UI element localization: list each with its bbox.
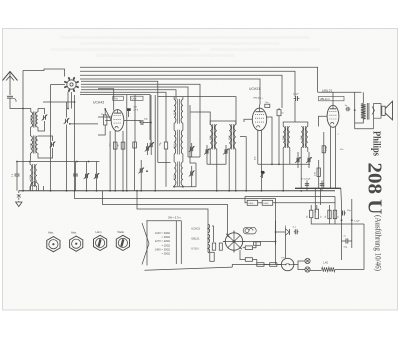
label L4 (174, 109, 176, 115)
wire R16 r (253, 242, 257, 248)
label R6 (315, 171, 317, 176)
node y164 b (278, 163, 280, 165)
wire R8 right (273, 197, 335, 203)
wire bus L7 (81, 87, 188, 157)
bleed-through ghosting (50, 36, 320, 57)
resistor R20 dropper (322, 267, 335, 271)
label C25 (344, 236, 347, 238)
label R11 (325, 215, 327, 218)
wire diode down (285, 235, 287, 258)
wire C5 down (16, 176, 18, 191)
capacitor C18 (294, 96, 300, 101)
wire osc mid link b (182, 123, 184, 130)
label T2a (283, 135, 285, 140)
wire osc y157 link (188, 156, 200, 158)
coil T2a IF2 primary (283, 126, 290, 148)
wire L1 sec bottom (38, 121, 45, 131)
trimmer C11 (138, 168, 144, 174)
label 50uF (134, 107, 138, 109)
label heater UCH21 (191, 227, 200, 231)
label L2 values (31, 142, 33, 148)
wire osc mid link a (173, 123, 175, 130)
wire socket down stub A (67, 92, 69, 109)
wire bus L2 (80, 71, 295, 96)
node x354 (354, 109, 356, 111)
junction dots on chassis bus (22, 190, 302, 192)
wire L3 bot (29, 187, 31, 191)
resistor R21 (164, 142, 167, 149)
wire R2 leads (114, 131, 116, 191)
node 275 sel (275, 241, 277, 243)
resistor R15 (219, 243, 222, 250)
trimmer C2 (42, 115, 48, 121)
label HF pin (254, 97, 264, 99)
wire x294 vertical (294, 101, 296, 123)
coil L3 oscillator (30, 164, 37, 187)
node y124 (69, 123, 71, 125)
wire C17 down (278, 116, 280, 165)
wire C7 leads (86, 162, 88, 191)
label R12b (338, 216, 340, 218)
resistor R16 (245, 246, 252, 250)
wire C5 leads (16, 162, 18, 175)
wire V1 top lead (98, 89, 114, 111)
capacitor C16 box (265, 102, 270, 107)
wire right edge riser (363, 224, 365, 270)
title 208U (364, 163, 386, 215)
label UCH43 (93, 101, 104, 105)
trimmer C19 (295, 157, 301, 163)
svg-text:(Ausführung 10/46): (Ausführung 10/46) (374, 215, 383, 271)
wire bus L10 (80, 95, 150, 140)
resistor R13 (210, 252, 214, 261)
wire top-left to socket (23, 69, 65, 77)
coil L5 osc band2 (174, 130, 183, 155)
wire bus up stub x43 (43, 186, 45, 191)
label box UBL (319, 96, 345, 100)
svg-text:20n: 20n (265, 102, 268, 104)
wire selector right (243, 241, 276, 243)
wire out bus y188 (295, 187, 341, 189)
wire V3 top (332, 92, 334, 105)
wire left vertical drop (22, 71, 24, 191)
svg-text:Abst.: Abst. (48, 231, 54, 235)
wire osc bottoms2 (182, 186, 184, 187)
wire bus L6 (81, 84, 200, 157)
label pin a (338, 134, 340, 136)
label UCH21 (249, 87, 260, 91)
trimmer C15 (223, 149, 229, 155)
wire L2 bottom (30, 153, 32, 161)
node 351 junction (351, 219, 353, 221)
trimmer C12 (189, 146, 195, 152)
wire R7R8 mid (258, 202, 263, 204)
svg-text:≈ 200Ω: ≈ 200Ω (162, 235, 170, 239)
node osc a (173, 186, 175, 188)
svg-text:2x 0,05µF: 2x 0,05µF (301, 179, 311, 181)
coil T1b IF1 secondary (229, 124, 236, 149)
wire osc col top2 (182, 97, 184, 100)
coil L2 antenna band2 (31, 136, 38, 154)
svg-text:Lärm: Lärm (96, 230, 102, 234)
node osc b (182, 186, 184, 188)
wire bus L9 (80, 92, 166, 142)
wire y102 link (43, 101, 75, 103)
wire R12 leads (334, 203, 336, 224)
wire bus L5 (81, 81, 158, 162)
wire T1b bottom (235, 149, 237, 191)
label 2W (168, 215, 181, 219)
wire x135 vertical (134, 95, 136, 142)
capacitor C17 box (277, 110, 284, 116)
capacitor C21 (346, 107, 351, 111)
wire L2 sec (38, 148, 53, 158)
switch S1 wave-band selector (64, 77, 79, 92)
wire power v2 (175, 221, 177, 264)
wire T2 top frame (283, 122, 308, 127)
label C24 (347, 210, 351, 212)
wire staircase A (75, 191, 276, 245)
capacitor C6 (73, 174, 78, 176)
label T1a (210, 135, 212, 140)
capacitor C24 electrolytic (341, 211, 346, 216)
wire V3 bottom a (330, 127, 332, 188)
capacitor C23 (320, 184, 324, 186)
trimmer C20 (306, 157, 312, 163)
wire L1 bottoms (30, 127, 32, 136)
wire L1 secondary top (37, 109, 39, 113)
wire rect link (276, 231, 286, 233)
title Ausfuehrung (374, 215, 383, 271)
wire T3 top (362, 92, 364, 103)
wire x110 vertical (109, 131, 111, 191)
svg-text:0,1µF: 0,1µF (354, 221, 360, 223)
wire tube1 grid left (98, 116, 111, 118)
tube V3 UBL21 (327, 105, 339, 127)
svg-text:HF(-)Ba.+: HF(-)Ba.+ (254, 97, 264, 99)
speaker LS (372, 101, 393, 129)
coil T2b IF2 secondary (301, 126, 308, 148)
plug mains (305, 258, 310, 272)
wire x275 vertical (275, 221, 277, 265)
coil L6 osc band3 (174, 162, 183, 187)
knob tuning 1 (47, 237, 60, 252)
tube V1 UCH43 (111, 110, 124, 132)
svg-text:0,1µF: 0,1µF (293, 94, 299, 96)
label knob4 (118, 230, 125, 234)
wire C3 top (38, 136, 53, 141)
heater element UBL21 (208, 234, 210, 243)
title Philips (370, 131, 381, 156)
wire T1 mid verticals 2 (228, 149, 230, 191)
wire T2b bottom (307, 148, 309, 153)
wire staircase B (103, 191, 231, 238)
wire T2 mids (289, 148, 291, 165)
wire out bus drop1 (314, 188, 316, 213)
svg-text:2W ≈ 5,7m: 2W ≈ 5,7m (168, 215, 181, 219)
capacitor C5 (15, 174, 20, 176)
resistor R12 (333, 210, 336, 219)
label dropper (323, 262, 328, 265)
trimmer C10b (148, 142, 154, 148)
wire R10 leads (316, 205, 318, 209)
coil T3 output transformer primary (361, 104, 366, 119)
svg-text:2000: 2000 (31, 142, 33, 148)
label C5 (12, 173, 14, 177)
wire R4 leads (134, 142, 136, 191)
resistor R7 (247, 200, 258, 205)
wire osc col top (173, 97, 175, 100)
svg-text:≈7V: ≈7V (281, 257, 285, 260)
antenna (3, 72, 18, 96)
wire L3 top (29, 162, 31, 165)
wire C10b leads (150, 140, 152, 155)
wire R9R10 bottom (311, 218, 320, 224)
wire R9 leads (310, 205, 312, 210)
wire x354 vertical (354, 92, 356, 129)
svg-text:UCH21: UCH21 (249, 87, 260, 91)
wire C15 leads (225, 145, 227, 164)
svg-text:145V ≈ 250Ω: 145V ≈ 250Ω (155, 247, 170, 251)
wire power bottom rail (145, 267, 233, 270)
label knob1 (48, 231, 54, 235)
svg-text:2000: 2000 (30, 174, 32, 180)
resistor R19 (270, 263, 277, 267)
wire out bus drop2 (319, 188, 321, 205)
label T1b (229, 135, 231, 140)
svg-text:UBL21: UBL21 (191, 237, 200, 241)
svg-text:≈ 220Ω: ≈ 220Ω (162, 243, 170, 247)
node stub A (67, 108, 69, 110)
wire R19 r (277, 264, 282, 266)
wire C22 leads (306, 181, 308, 191)
wire y164 bus (258, 163, 310, 165)
wire R17 r (253, 260, 257, 265)
wire R21 down (165, 149, 167, 187)
wire bus L4 (80, 79, 260, 105)
svg-text:240Ω: 240Ω (248, 203, 253, 205)
label 0.1uF (293, 94, 299, 96)
wire socket down stub A2 (71, 92, 73, 109)
switch label box B (131, 96, 144, 100)
resistor R10 (315, 209, 318, 219)
label lamp (281, 257, 285, 260)
wire tube1 left lead (105, 119, 111, 121)
wire R6 leads (318, 160, 320, 188)
wire osc link mid (190, 112, 210, 125)
node y164 a (271, 163, 273, 165)
node C11 top (146, 170, 148, 172)
label C25b (344, 247, 348, 249)
wire anode link (158, 97, 236, 125)
svg-text:UY1N: UY1N (191, 247, 198, 251)
trimmer C8 (94, 173, 100, 179)
label L1 values (31, 116, 33, 122)
wire hbus left y160 (17, 161, 100, 163)
wire R17 路 (240, 250, 245, 260)
label C21 (345, 105, 348, 107)
wire C6 leads (75, 162, 77, 191)
wire osc right v2 (195, 163, 197, 187)
label L3 values (30, 174, 32, 180)
wire C12 leads (191, 143, 193, 157)
node 341 junction (341, 219, 343, 221)
label 47k (254, 156, 256, 160)
wire AVC drop (240, 137, 246, 191)
wire C20 leads (308, 152, 310, 168)
ground symbol (16, 191, 22, 207)
svg-text:≈ 250Ω: ≈ 250Ω (162, 252, 170, 256)
label UBL21 (322, 89, 332, 93)
svg-text:1,4Ω: 1,4Ω (323, 262, 328, 265)
bracket voltage table (142, 223, 149, 265)
knob volume (94, 235, 107, 250)
wire trimmer C2 top (38, 109, 45, 115)
svg-text:Und: Und (132, 97, 137, 101)
wire y128 link (355, 128, 374, 130)
wire C14 leads (206, 145, 208, 164)
resistor R8 (262, 200, 273, 205)
fuse on bus (31, 182, 39, 191)
wire right vert x50 (50, 85, 52, 191)
wire osc y162 link (158, 161, 171, 163)
wire V3 bottom b (335, 127, 337, 188)
wire V3 left (319, 116, 328, 126)
capacitor C9 mid (141, 120, 143, 125)
capacitor C27 dark (260, 171, 265, 178)
wire osc mid link c (173, 154, 175, 162)
wire T1a bottom (209, 149, 211, 164)
svg-text:127V ≈ 220Ω: 127V ≈ 220Ω (155, 239, 170, 243)
wire V2 left lead (244, 119, 252, 122)
label heater UBL21 (191, 237, 200, 241)
wire osc bottoms (174, 186, 196, 187)
wire R1 top (105, 109, 111, 120)
wire C13 leads (191, 166, 193, 187)
trimmer C13 (189, 171, 195, 177)
wire antenna to L1 (10, 98, 31, 112)
trimmer C14 (204, 149, 210, 155)
knob tuning 2 (70, 236, 83, 251)
trimmer C4 (64, 118, 70, 124)
wire V2 top (259, 105, 261, 109)
tube V2 UCH21 (252, 108, 266, 130)
resistor R1 grid (101, 114, 107, 125)
svg-text:20 70: 20 70 (174, 109, 176, 115)
label heater UY1N (191, 247, 198, 251)
heater element UCH21 (208, 224, 210, 233)
resistor R6 (317, 168, 320, 176)
label 01uF right (354, 221, 360, 223)
wire V2 bottom2 (261, 131, 263, 191)
label 7kO (340, 149, 343, 151)
wire bus L3 (80, 75, 282, 108)
wire C4 (66, 102, 68, 118)
trimmer C7 (84, 173, 90, 179)
label R10b (321, 215, 323, 218)
wire R18 r (264, 264, 270, 266)
svg-text:Welle: Welle (118, 230, 125, 234)
svg-text:50n: 50n (340, 149, 343, 151)
label L6 (174, 174, 176, 180)
wire R7R8 link (245, 197, 247, 203)
label 40pF (159, 141, 162, 146)
capacitor C9b dark (127, 108, 131, 117)
wire y92 link (318, 91, 362, 93)
coil L1 antenna transformer (31, 112, 38, 128)
wire dropper to right (335, 269, 364, 271)
wire lamp to plug (294, 261, 305, 265)
wire x155 vertical (154, 95, 156, 191)
capacitor C1 antenna series (7, 96, 13, 98)
coil T1a IF1 primary (210, 124, 217, 149)
svg-text:UCH43: UCH43 (93, 101, 104, 105)
wire osc frame right (190, 105, 196, 163)
node C9 right (150, 122, 152, 124)
coil L4 osc band1 (174, 99, 183, 124)
trimmer C10 (145, 146, 151, 152)
wire heater chain (207, 221, 209, 253)
wire y124 link (70, 123, 98, 125)
trimmer C3 (50, 142, 56, 148)
junction dots on y161 line (16, 161, 89, 163)
wire bus L1 top (80, 67, 318, 92)
svg-text:µF•δ: µF•δ (134, 110, 139, 112)
svg-text:Abst.: Abst. (71, 231, 77, 235)
node x23 junction (22, 108, 24, 110)
wire x151 vertical (150, 95, 152, 143)
resistor R3 (117, 142, 124, 149)
node AVC bus (245, 190, 247, 192)
label C9 (144, 119, 148, 121)
wire C17 top (278, 108, 280, 110)
svg-text:240Ω: 240Ω (263, 203, 268, 205)
wire V2 bottom (257, 131, 259, 165)
svg-text:1k: 1k (338, 216, 340, 218)
label uFd (134, 110, 139, 112)
wire T2a bottom (282, 148, 284, 191)
svg-text:20 70: 20 70 (31, 116, 33, 122)
wire C4 bot (66, 125, 68, 191)
resistor R22 (254, 242, 261, 245)
svg-text:0,2M: 0,2M (326, 146, 328, 151)
wire bus L8 (81, 90, 176, 100)
switch label box A (113, 96, 124, 100)
label R5 (326, 146, 328, 151)
label 2x005 (301, 179, 311, 181)
wire socket down stub B (74, 95, 76, 191)
wire osc mid link d (182, 154, 184, 162)
capacitor C25 2x50 (345, 239, 350, 244)
wire riser link (342, 223, 365, 225)
wire R5 leads (323, 132, 325, 188)
wire C19 leads (297, 152, 299, 168)
wire T1 mid verticals (216, 149, 218, 191)
wire x351 vertical (351, 199, 353, 248)
wire socket left stub (51, 84, 66, 86)
wire plug lower (298, 265, 305, 270)
rectifier UY diode (286, 226, 290, 236)
svg-text:Philips: Philips (370, 131, 381, 156)
wire C8 leads (96, 162, 98, 191)
wire V2 right lead (267, 117, 272, 164)
wire x126 vertical (126, 95, 128, 191)
resistor R5 (322, 146, 325, 153)
svg-text:Für: Für (114, 97, 118, 101)
label knob2 (71, 231, 77, 235)
wire C10 leads (147, 143, 149, 155)
heater element UY1N (208, 244, 210, 253)
